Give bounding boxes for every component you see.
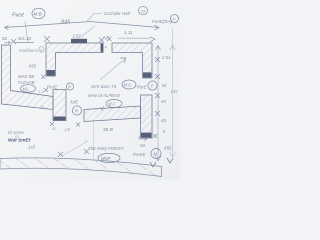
svg-text:marblains: marblains — [19, 48, 39, 53]
dimension 52 under pilaster — [50, 122, 80, 127]
svg-text:23: 23 — [141, 9, 145, 13]
svg-text:PmKE: PmKE — [133, 152, 146, 157]
svg-text:52: 52 — [52, 126, 57, 131]
small dimension 4 / 50 at bar2 base — [138, 138, 147, 141]
leader from title to wall — [25, 21, 28, 43]
svg-text:PorE: PorE — [137, 85, 147, 90]
svg-text:MAe bt ALPEnO: MAe bt ALPEnO — [88, 93, 121, 98]
svg-text:-p5: -p5 — [64, 127, 71, 132]
dark cap of bar 2 — [141, 133, 151, 138]
svg-text:M.B: M.B — [34, 12, 42, 17]
svg-text:35 B: 35 B — [103, 127, 114, 133]
title label Fwst (M.B) — [12, 8, 45, 19]
svg-text:34: 34 — [162, 83, 167, 88]
wall A with band 1 (left L-shaped hatched wall) — [2, 45, 54, 110]
right dimension line (outer) — [170, 28, 176, 157]
leader to bottom band — [62, 141, 88, 156]
door threshold block on top wall — [71, 39, 87, 43]
svg-text:135: 135 — [171, 89, 179, 94]
svg-text:2.92: 2.92 — [72, 34, 82, 39]
svg-text:45: 45 — [161, 118, 166, 123]
wall L2 (top middle L-shaped hatched wall) — [46, 43, 103, 76]
bottom long hatched wall band — [0, 158, 162, 177]
svg-text:M: M — [154, 152, 158, 157]
bar 2 (right vertical hatched wall lower) — [141, 95, 153, 138]
svg-text:MAt SaG-73: MAt SaG-73 — [91, 84, 117, 89]
svg-text:845: 845 — [61, 20, 71, 26]
tick marks on bottom band — [58, 149, 89, 157]
faint vertical construction line — [93, 122, 95, 160]
label Corridor Hall — [87, 14, 102, 22]
svg-text:lurE: lurE — [71, 100, 79, 105]
svg-text:450: 450 — [164, 146, 172, 151]
up arrowheads on right dimension lines — [156, 46, 161, 51]
svg-text:1.5: 1.5 — [38, 89, 44, 94]
top dimension arrow 845 — [5, 22, 160, 31]
svg-text:W1.42: W1.42 — [18, 36, 32, 41]
svg-text:MAE BK: MAE BK — [18, 74, 36, 79]
leader to threshold — [81, 26, 95, 37]
svg-text:P: P — [68, 85, 71, 90]
paper background — [0, 0, 180, 180]
wall L3 (top right mirrored L-shaped hatched wall) — [112, 43, 152, 78]
svg-text:52: 52 — [2, 36, 8, 41]
svg-text:PorE: PorE — [47, 85, 58, 90]
svg-text:M.F: M.F — [108, 102, 116, 107]
svg-text:2.51: 2.51 — [161, 55, 171, 60]
right dimension line (inner) — [155, 46, 161, 161]
svg-text:F: F — [151, 84, 154, 89]
dark end cap of L2 top band — [101, 44, 104, 53]
svg-text:45: 45 — [161, 99, 166, 104]
svg-text:FLEVAB: FLEVAB — [18, 80, 35, 85]
svg-text:4: 4 — [138, 135, 140, 139]
svg-text:435: 435 — [29, 64, 37, 69]
svg-text:50: 50 — [140, 143, 145, 148]
svg-text:1.11: 1.11 — [124, 30, 133, 35]
pilaster block at band 1 end — [53, 90, 66, 121]
svg-text:Fwst: Fwst — [12, 13, 24, 19]
svg-text:ThE KNQ-FWEST: ThE KNQ-FWEST — [88, 146, 124, 151]
svg-text:R: R — [75, 109, 78, 114]
door 2 tick marks — [99, 37, 112, 43]
svg-text:Wat SmEt: Wat SmEt — [8, 138, 31, 144]
svg-text:FonE(SA): FonE(SA) — [152, 19, 173, 24]
leader arrow to L3 inner corner — [100, 58, 126, 80]
down arrows at bottom right — [150, 162, 156, 167]
svg-text:M.S: M.S — [124, 83, 132, 88]
svg-text:Corridor Hall: Corridor Hall — [104, 11, 131, 16]
dark end cap of L3 leg — [143, 72, 151, 77]
dark end cap of L2 leg — [47, 70, 55, 76]
svg-text:1x5: 1x5 — [28, 145, 36, 150]
dark cap of pilaster — [54, 117, 66, 121]
svg-text:M.L: M.L — [23, 87, 31, 92]
band 2 (right horizontal hatched wall) — [84, 106, 141, 122]
